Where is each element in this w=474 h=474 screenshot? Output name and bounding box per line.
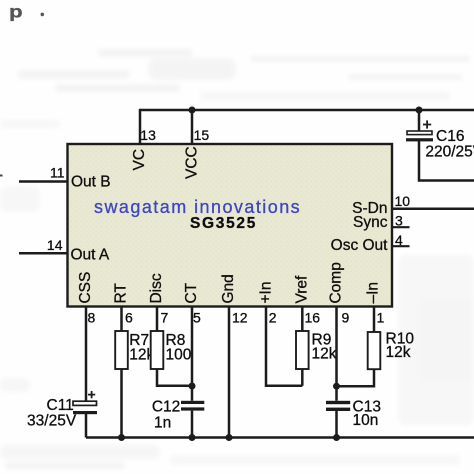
capacitor C11 xyxy=(27,391,97,438)
svg-text:12: 12 xyxy=(232,310,248,326)
svg-text:10n: 10n xyxy=(353,412,379,429)
junction at pin15/rail xyxy=(189,107,196,114)
wire CT pin 5 xyxy=(191,307,194,401)
svg-text:220/25V: 220/25V xyxy=(425,144,474,161)
wire Osc Out pin 4 stub xyxy=(392,245,410,247)
junction RT/rail xyxy=(118,434,125,441)
wire CSS pin 8 xyxy=(85,307,88,401)
svg-text:14: 14 xyxy=(47,237,63,253)
stray dot xyxy=(41,13,45,17)
svg-text:+In: +In xyxy=(258,282,275,304)
junction Gnd/rail xyxy=(226,434,233,441)
C11 positive plate xyxy=(73,401,97,405)
svg-text:Disc: Disc xyxy=(148,273,165,303)
svg-text:p: p xyxy=(9,2,23,21)
svg-text:RT: RT xyxy=(113,283,130,304)
svg-text:Out A: Out A xyxy=(71,247,110,264)
C12 plate top xyxy=(181,401,204,404)
wire C13 to rail xyxy=(335,411,338,438)
svg-text:4: 4 xyxy=(395,232,403,248)
wire Disc pin 7 xyxy=(156,307,159,332)
svg-text:15: 15 xyxy=(194,127,210,143)
C12 plate bottom xyxy=(181,407,204,410)
svg-text:C16: C16 xyxy=(436,128,464,145)
svg-text:CT: CT xyxy=(183,282,200,303)
C16 plus sign xyxy=(423,120,431,128)
svg-text:Out B: Out B xyxy=(71,173,111,190)
wire Sync pin 3 stub xyxy=(392,226,410,228)
capacitor C12 xyxy=(152,398,204,437)
junction CT/rail xyxy=(189,434,196,441)
wire R7 to rail xyxy=(120,369,123,438)
resistor R8 xyxy=(151,331,164,369)
C11 negative plate xyxy=(73,411,97,414)
wire Out B pin 11 xyxy=(19,180,67,183)
wire Gnd pin 12 xyxy=(228,307,231,438)
svg-text:3: 3 xyxy=(395,212,403,228)
svg-text:5: 5 xyxy=(193,310,201,326)
wire -In pin 1 xyxy=(373,307,376,332)
wire C16 lower stem xyxy=(419,141,474,181)
svg-text:SG3525: SG3525 xyxy=(190,215,257,232)
wire pin 15 to rail xyxy=(191,110,194,143)
C13 plate bottom xyxy=(326,408,350,411)
wire R8 to CT junction xyxy=(157,369,192,386)
wire +In pin 2 to Vref xyxy=(266,307,302,386)
svg-text:9: 9 xyxy=(342,310,350,326)
svg-text:16: 16 xyxy=(305,310,321,326)
wire R9 to +In loop xyxy=(301,369,304,386)
svg-text:Vref: Vref xyxy=(293,275,310,304)
svg-text:C11: C11 xyxy=(47,397,74,414)
wire Comp pin 9 xyxy=(335,307,338,401)
wire RT pin 6 xyxy=(120,307,123,332)
wire Vref pin 16 xyxy=(301,307,304,332)
svg-text:8: 8 xyxy=(88,310,96,326)
junction at C16/rail xyxy=(416,107,423,114)
wire R10 to Comp junction xyxy=(337,369,375,386)
svg-text:Sync: Sync xyxy=(353,214,388,231)
svg-text:100: 100 xyxy=(166,347,192,364)
svg-text:6: 6 xyxy=(125,310,133,326)
svg-text:VC: VC xyxy=(131,149,148,171)
svg-text:VCC: VCC xyxy=(183,146,200,179)
resistor R7 xyxy=(115,331,128,369)
wire S-Dn pin 10 xyxy=(392,208,474,211)
ground rail xyxy=(86,436,474,439)
svg-text:2: 2 xyxy=(269,310,277,326)
wire VCC top rail xyxy=(140,109,474,112)
wire C11 to rail xyxy=(85,414,88,438)
C16 positive plate xyxy=(407,131,432,135)
svg-text:CSS: CSS xyxy=(77,272,94,304)
svg-text:7: 7 xyxy=(161,310,169,326)
svg-text:12k: 12k xyxy=(386,344,411,361)
IC U1 SG3525 body xyxy=(68,144,393,307)
junction Comp/R10 xyxy=(333,383,340,390)
resistor R10 xyxy=(368,332,381,369)
svg-text:12k: 12k xyxy=(312,346,337,363)
wire Out A pin 14 xyxy=(19,252,67,255)
svg-text:1n: 1n xyxy=(154,415,171,432)
svg-text:1: 1 xyxy=(377,310,385,326)
svg-text:Osc Out: Osc Out xyxy=(331,237,389,254)
wire C12 to rail xyxy=(191,411,194,438)
wire C16 upper stem xyxy=(418,110,421,131)
junction CT/Disc xyxy=(189,383,196,390)
capacitor C13 xyxy=(326,398,381,437)
svg-text:Gnd: Gnd xyxy=(220,274,237,303)
C16 negative plate xyxy=(406,138,433,141)
wire pin 13 to rail xyxy=(139,109,142,143)
svg-text:33/25V: 33/25V xyxy=(27,413,77,430)
svg-text:–In: –In xyxy=(365,282,382,304)
capacitor C16 xyxy=(406,110,474,181)
svg-text:Comp: Comp xyxy=(328,262,345,303)
svg-text:C12: C12 xyxy=(152,398,180,415)
C11 plus sign xyxy=(88,391,95,398)
svg-text:11: 11 xyxy=(50,165,65,181)
svg-text:13: 13 xyxy=(140,127,156,143)
resistor R9 xyxy=(296,331,309,369)
svg-text:10: 10 xyxy=(395,193,411,209)
C13 plate top xyxy=(326,401,350,404)
stray left-edge tick xyxy=(0,175,3,177)
junction C13/rail xyxy=(333,434,340,441)
